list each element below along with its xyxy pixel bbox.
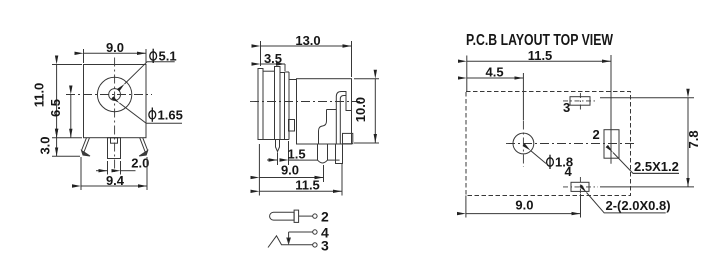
- terminal 3: [313, 243, 317, 247]
- svg-text:7.8: 7.8: [686, 130, 701, 148]
- center pin contact with round bottom: [318, 144, 328, 163]
- center pin hole circle (1.65 dia): [109, 89, 121, 101]
- svg-text:5.1: 5.1: [159, 49, 177, 64]
- dimension 10.0 (side height): [354, 78, 379, 80]
- svg-text:P.C.B LAYOUT TOP VIEW: P.C.B LAYOUT TOP VIEW: [466, 32, 613, 49]
- latch slot on front: [289, 120, 295, 132]
- center pin barrel symbol: [270, 212, 295, 220]
- terminal 2: [313, 214, 317, 218]
- svg-text:6.5: 6.5: [48, 99, 63, 117]
- flange base line: [258, 139, 289, 141]
- main body rectangle: [297, 79, 352, 144]
- terminal 4: [313, 230, 317, 234]
- right mounting leg: [140, 138, 148, 152]
- dimension 4.5 (hole offset): [522, 73, 524, 120]
- dimension 13.0 (side overall width): [260, 41, 262, 66]
- side latch tab: [343, 133, 353, 143]
- front flange strip B: [275, 67, 281, 140]
- flange bar: [294, 210, 299, 222]
- dimension 9.0 (side, to contact center): [258, 144, 260, 196]
- svg-text:9.0: 9.0: [281, 163, 299, 178]
- flange top connectors: [263, 70, 275, 72]
- label 1.8 dia leader: [531, 151, 547, 164]
- movable contact arm with arrow: [288, 232, 290, 238]
- inner contact (rear): [336, 92, 351, 145]
- horizontal centerline: [506, 143, 637, 145]
- svg-text:2.5X1.2: 2.5X1.2: [634, 159, 679, 174]
- pad 4: [571, 182, 589, 191]
- svg-text:2: 2: [593, 127, 600, 142]
- svg-text:2-(2.0X0.8): 2-(2.0X0.8): [606, 198, 671, 213]
- label 1.65 dia leader: [119, 103, 182, 123]
- svg-text:3: 3: [321, 238, 329, 254]
- front pin with pointed tip: [276, 140, 280, 152]
- svg-text:4.5: 4.5: [486, 65, 504, 80]
- pad 3: [570, 97, 590, 106]
- svg-text:9.0: 9.0: [515, 198, 533, 213]
- svg-text:3: 3: [563, 100, 570, 115]
- svg-text:1.65: 1.65: [158, 108, 183, 123]
- dimension 7.8 (pad3 to pad4): [600, 97, 694, 99]
- front view body square: [84, 65, 147, 138]
- dimension 6.5 (center height): [70, 95, 72, 138]
- svg-text:10.0: 10.0: [353, 97, 368, 122]
- vertical centerline: [114, 58, 116, 173]
- svg-text:11.5: 11.5: [295, 178, 320, 193]
- wire to terminal 4: [289, 231, 313, 233]
- svg-text:2: 2: [321, 209, 329, 225]
- switch spring zigzag: [268, 236, 313, 248]
- pin notch: [111, 138, 118, 144]
- dimension 11.5 (pcb width): [466, 56, 468, 92]
- svg-text:3.0: 3.0: [38, 136, 53, 154]
- dimension 11.5 (side, to rear pin): [341, 163, 343, 196]
- mounting hole 1.8 dia: [513, 133, 534, 154]
- center terminal pin below body: [108, 138, 121, 159]
- dimension 11.0 (front height): [52, 64, 82, 66]
- dimension 1.5 (pin offset): [277, 153, 279, 166]
- horizontal centerline: [250, 101, 360, 103]
- front flange strip A: [258, 69, 263, 140]
- barrel circle (5.1 dia): [97, 77, 131, 111]
- svg-text:4: 4: [565, 164, 573, 179]
- horizontal centerline: [66, 94, 152, 96]
- wire to terminal 2: [299, 215, 313, 217]
- dimension 2.0 (pin width): [107, 161, 109, 175]
- dimension 9.4 (leg span): [80, 157, 82, 190]
- pad 2 size leader: [613, 153, 679, 174]
- label 5.1 dia leader: [125, 62, 175, 84]
- flange back plate: [284, 72, 286, 140]
- svg-text:1.5: 1.5: [288, 146, 306, 161]
- pad 2 (2.5x1.2): [604, 130, 619, 159]
- board outline dashed: [466, 92, 631, 196]
- pad size leader 2-(2.0X0.8): [587, 193, 666, 213]
- hole vertical centerline: [522, 121, 524, 168]
- svg-text:13.0: 13.0: [295, 33, 320, 48]
- svg-text:11.0: 11.0: [32, 83, 47, 108]
- svg-text:9.0: 9.0: [106, 40, 124, 55]
- dimension 9.0 (pcb, hole to pad4): [465, 196, 467, 218]
- dimension 3.0 (leg length): [52, 155, 80, 157]
- svg-text:3.5: 3.5: [264, 51, 282, 66]
- svg-text:9.4: 9.4: [106, 173, 125, 188]
- dimension 3.5 (flange depth): [284, 64, 286, 71]
- spring contact: [327, 109, 337, 111]
- dimension 9.0 (front width): [83, 49, 85, 63]
- left mounting leg: [82, 138, 90, 152]
- lower rail line: [289, 159, 318, 161]
- rear mounting pin: [336, 144, 343, 164]
- svg-text:11.5: 11.5: [528, 48, 553, 63]
- neck top line: [289, 79, 297, 81]
